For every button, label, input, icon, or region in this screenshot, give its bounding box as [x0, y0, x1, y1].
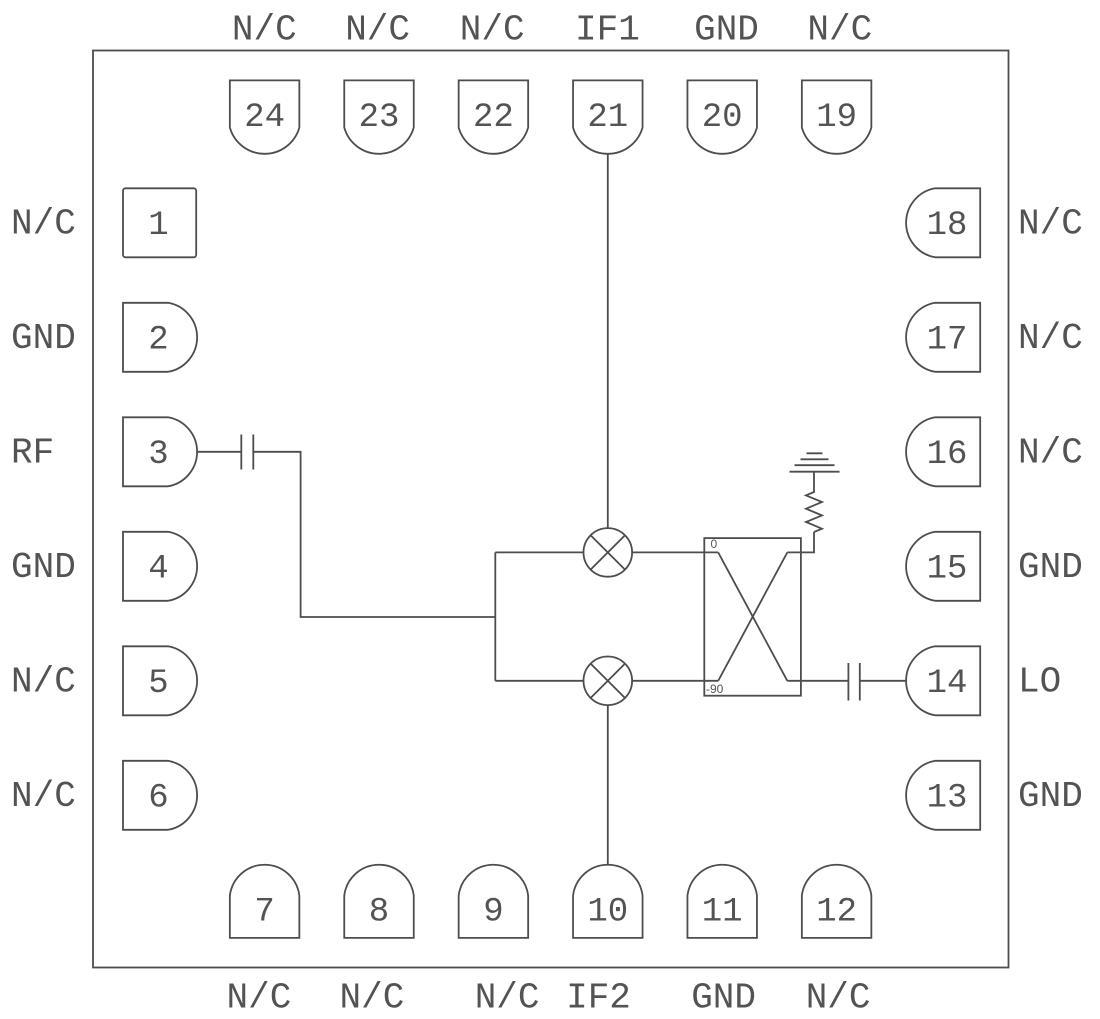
pin 14: [906, 646, 980, 715]
label RF pin 3: [11, 432, 54, 473]
svg-text:16: 16: [927, 436, 968, 474]
capacitor C1 (RF blocking): [241, 435, 253, 470]
svg-text:21: 21: [587, 99, 628, 137]
svg-text:0: 0: [711, 537, 718, 551]
pin 8: [344, 865, 414, 938]
svg-text:23: 23: [359, 99, 400, 137]
label N/C pin 12: [806, 978, 871, 1019]
label LO pin 14: [1018, 661, 1061, 702]
svg-text:N/C: N/C: [806, 978, 871, 1019]
label N/C pin 22: [460, 10, 525, 51]
pin 10: [573, 865, 643, 938]
svg-text:9: 9: [483, 894, 503, 932]
svg-text:10: 10: [587, 894, 628, 932]
svg-text:18: 18: [927, 207, 968, 245]
svg-text:N/C: N/C: [11, 776, 76, 817]
label N/C pin 6: [11, 776, 76, 817]
svg-text:N/C: N/C: [339, 978, 404, 1019]
pin 19: [802, 80, 872, 153]
svg-text:N/C: N/C: [475, 978, 540, 1019]
label N/C pin 19: [807, 10, 872, 51]
svg-text:19: 19: [816, 99, 857, 137]
wire pin 21 to mixer M1 (IF1): [607, 154, 609, 528]
label N/C pin 23: [345, 10, 410, 51]
svg-text:8: 8: [369, 894, 389, 932]
svg-text:GND: GND: [694, 10, 759, 51]
package outline: [93, 51, 1009, 968]
svg-text:GND: GND: [1018, 776, 1083, 817]
label N/C pin 7: [226, 978, 291, 1019]
svg-text:13: 13: [927, 779, 968, 817]
svg-text:N/C: N/C: [1018, 432, 1083, 473]
svg-text:GND: GND: [1018, 547, 1083, 588]
wire RF pin3 to capacitor: [197, 451, 242, 453]
label N/C pin 1: [11, 203, 76, 244]
label -90 port: [706, 682, 724, 696]
label GND pin 15: [1018, 547, 1083, 588]
pin 23: [344, 80, 414, 153]
pin 22: [459, 80, 529, 153]
svg-text:12: 12: [816, 894, 857, 932]
pin 24: [230, 80, 300, 153]
pin 12: [802, 865, 872, 938]
svg-text:7: 7: [254, 894, 274, 932]
label GND pin 13: [1018, 776, 1083, 817]
pin 20: [687, 80, 757, 153]
svg-text:20: 20: [702, 99, 743, 137]
svg-text:5: 5: [148, 665, 168, 703]
svg-text:24: 24: [244, 99, 285, 137]
svg-text:N/C: N/C: [345, 10, 410, 51]
label N/C pin 24: [232, 10, 297, 51]
pin 4: [123, 532, 197, 601]
wire splitter to mixer M1: [495, 551, 583, 553]
mixer M2: [584, 657, 633, 706]
pin 15: [906, 532, 980, 601]
capacitor C2 (LO blocking): [848, 663, 859, 701]
svg-text:N/C: N/C: [232, 10, 297, 51]
svg-text:N/C: N/C: [11, 661, 76, 702]
wire hybrid to LO capacitor: [787, 680, 848, 682]
wire mixer M1 to hybrid: [632, 551, 718, 553]
label IF2 pin 10: [566, 978, 631, 1019]
svg-text:IF2: IF2: [566, 978, 631, 1019]
ground: [790, 453, 840, 471]
label N/C pin 9: [475, 978, 540, 1019]
svg-text:N/C: N/C: [460, 10, 525, 51]
mixer M1: [584, 528, 633, 577]
pin 21: [573, 80, 643, 153]
label 0 port: [711, 537, 718, 551]
pin 16: [906, 417, 980, 486]
label N/C pin 17: [1018, 318, 1083, 359]
svg-text:1: 1: [148, 207, 168, 245]
label N/C pin 18: [1018, 203, 1083, 244]
svg-text:6: 6: [148, 779, 168, 817]
quadrature hybrid U1: [704, 538, 801, 696]
svg-text:4: 4: [148, 550, 168, 588]
resistor R1: [806, 472, 822, 532]
pin 13: [906, 761, 980, 830]
svg-text:LO: LO: [1018, 661, 1061, 702]
wire splitter to mixer M2: [495, 680, 583, 682]
svg-text:RF: RF: [11, 432, 54, 473]
wire mixer M2 to pin 10 (IF2): [607, 705, 609, 865]
svg-text:-90: -90: [706, 682, 724, 696]
wire capacitor to mixer splitter: [253, 452, 495, 617]
svg-text:15: 15: [927, 550, 968, 588]
wire mixer M2 to hybrid: [632, 680, 718, 682]
svg-text:GND: GND: [11, 318, 76, 359]
wire splitter vertical: [494, 552, 496, 680]
svg-text:N/C: N/C: [226, 978, 291, 1019]
svg-text:14: 14: [927, 665, 968, 703]
wire capacitor to pin 14 (LO): [860, 680, 907, 682]
pin 17: [906, 303, 980, 372]
pin 7: [230, 865, 300, 938]
svg-text:17: 17: [927, 321, 968, 359]
svg-text:N/C: N/C: [11, 203, 76, 244]
pin 18: [906, 188, 980, 257]
label N/C pin 16: [1018, 432, 1083, 473]
svg-text:GND: GND: [11, 547, 76, 588]
label GND pin 4: [11, 547, 76, 588]
wire hybrid isolated port to resistor: [787, 532, 814, 552]
pin 11: [687, 865, 757, 938]
svg-text:2: 2: [148, 321, 168, 359]
pin 3: [123, 417, 197, 486]
svg-text:GND: GND: [691, 978, 756, 1019]
pin 6: [123, 761, 197, 830]
svg-text:3: 3: [148, 436, 168, 474]
svg-text:N/C: N/C: [1018, 203, 1083, 244]
svg-text:N/C: N/C: [807, 10, 872, 51]
label GND pin 20: [694, 10, 759, 51]
label GND pin 11: [691, 978, 756, 1019]
svg-text:22: 22: [473, 99, 514, 137]
pin 5: [123, 646, 197, 715]
pin 1: [123, 188, 196, 257]
pin 2: [123, 303, 197, 372]
label N/C pin 5: [11, 661, 76, 702]
label N/C pin 8: [339, 978, 404, 1019]
svg-text:11: 11: [702, 894, 743, 932]
label GND pin 2: [11, 318, 76, 359]
pin 9: [459, 865, 529, 938]
label IF1 pin 21: [575, 10, 640, 51]
svg-text:IF1: IF1: [575, 10, 640, 51]
svg-text:N/C: N/C: [1018, 318, 1083, 359]
